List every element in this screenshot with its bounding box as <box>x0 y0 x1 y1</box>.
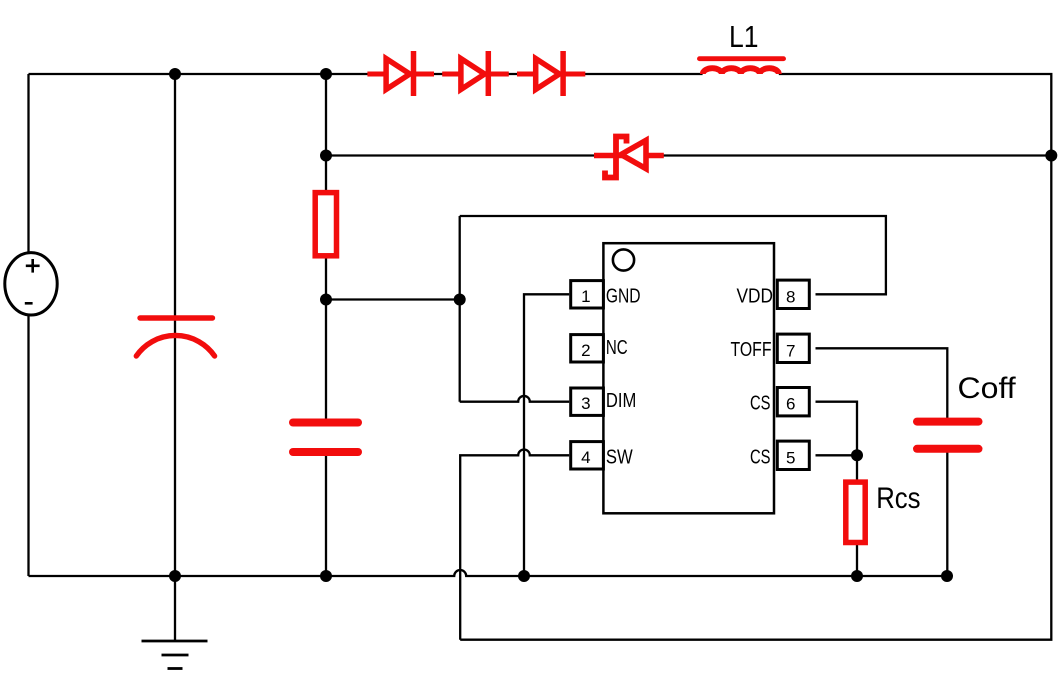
svg-text:CS: CS <box>750 447 771 469</box>
svg-text:CS: CS <box>750 393 771 415</box>
svg-text:3: 3 <box>581 394 590 413</box>
svg-text:Rcs: Rcs <box>876 482 920 515</box>
svg-text:5: 5 <box>786 448 795 467</box>
svg-text:1: 1 <box>581 287 590 306</box>
svg-text:2: 2 <box>581 341 590 360</box>
svg-text:4: 4 <box>581 448 590 467</box>
svg-text:TOFF: TOFF <box>731 339 772 361</box>
svg-text:L1: L1 <box>729 20 759 54</box>
svg-text:SW: SW <box>606 447 633 469</box>
svg-text:Coff: Coff <box>958 372 1017 405</box>
svg-text:GND: GND <box>606 286 641 308</box>
svg-text:8: 8 <box>786 287 795 306</box>
svg-text:7: 7 <box>786 341 795 360</box>
svg-text:DIM: DIM <box>606 390 636 412</box>
svg-text:6: 6 <box>786 395 795 414</box>
svg-text:VDD: VDD <box>737 286 774 308</box>
svg-text:NC: NC <box>606 337 628 359</box>
